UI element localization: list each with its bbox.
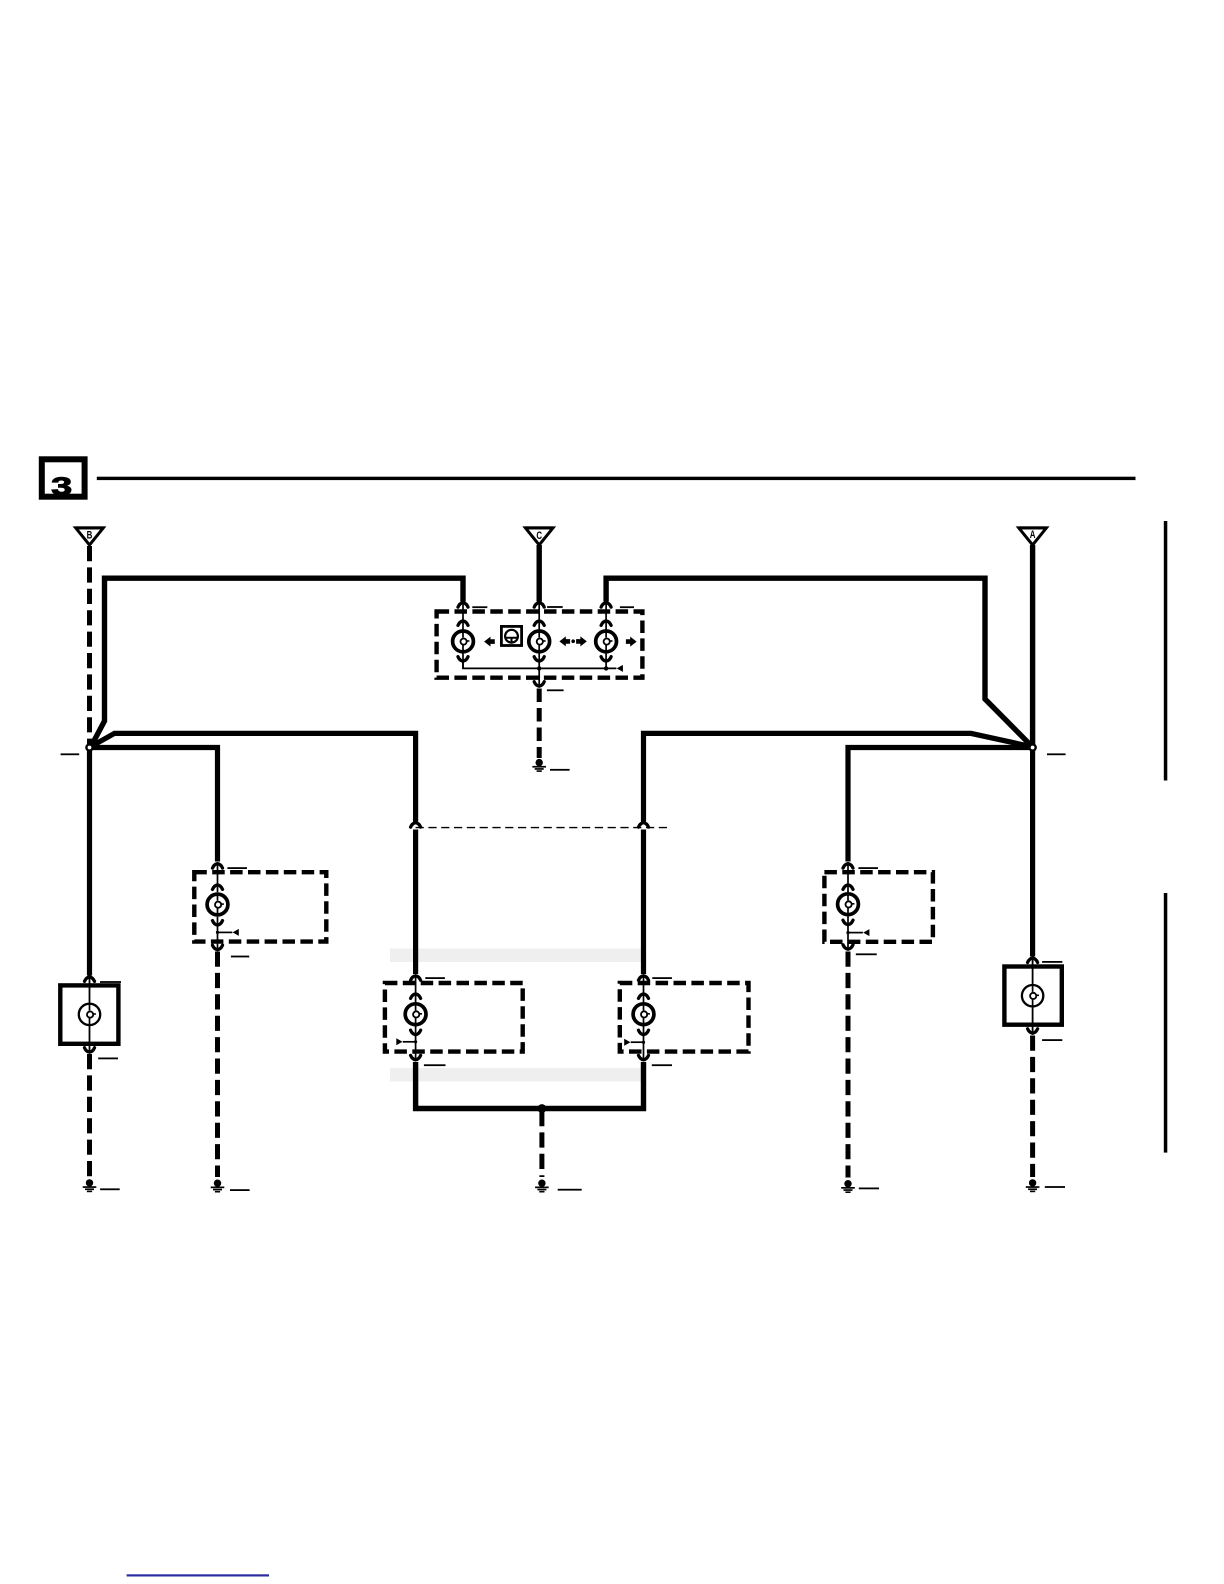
svg-text:C: C (536, 530, 542, 543)
column 2 ground (211, 1180, 225, 1193)
mid-right lamp entry chevron (639, 976, 649, 981)
upper bus left segment (91, 578, 463, 746)
column 2 bulb (207, 894, 228, 915)
cluster lamp 3 plug chevron (601, 621, 611, 626)
column 4 stub line (848, 932, 863, 934)
cluster lamp 1 lower chevron (458, 657, 468, 662)
mid-left lamp lower chevron (411, 1030, 421, 1035)
mid-right stub junction (642, 1041, 645, 1044)
bottom ground label dash (558, 1189, 582, 1191)
mid-right bulb (633, 1004, 654, 1025)
turn indicator bulb middle (529, 631, 550, 652)
svg-text:B: B (87, 529, 93, 542)
column 2 lamp plug chevron (213, 885, 223, 890)
collector junction right (604, 666, 608, 670)
cluster exit connector (534, 682, 544, 687)
mid-left stub line (403, 1041, 416, 1043)
column 4 lamp lead (847, 865, 849, 949)
cluster lamp 2 lower chevron (534, 657, 544, 662)
cluster ground wire dashed (537, 689, 542, 759)
right margin bar 2 (1164, 893, 1168, 1153)
cluster lamp 1 lead (462, 604, 464, 669)
column 1 exit chevron (85, 1048, 95, 1053)
node B label dash (61, 753, 80, 755)
column 4 stub triangle (863, 929, 869, 936)
branch wire node-B to column 2 (90, 748, 218, 862)
column 1 ground wire dashed (87, 1054, 92, 1177)
column 4 bulb (838, 894, 859, 915)
bottom bus junction (538, 1104, 547, 1113)
cluster lamp 3 lead (605, 604, 607, 669)
mid-left connector chevron (411, 823, 421, 828)
column 4 stub junction (846, 931, 849, 934)
bottom ground wire dashed (539, 1111, 544, 1177)
column 4 exit label dash (856, 953, 877, 955)
mid-left wire to lamp (413, 830, 418, 975)
svg-text:3: 3 (51, 472, 72, 500)
column 2 ground label dash (230, 1189, 250, 1191)
page number 3 (51, 472, 72, 500)
mid-right connector chevron (639, 823, 649, 828)
mid-left stub junction (414, 1040, 417, 1043)
cluster entry connector middle (534, 603, 544, 608)
column 2 entry label dash (227, 867, 247, 869)
bottom bus (416, 1062, 644, 1109)
column 4 entry chevron (843, 864, 853, 869)
mid-left stub triangle (396, 1038, 402, 1045)
highlight band 1 (390, 949, 642, 963)
column 1 ground (83, 1179, 97, 1192)
hazard dot (571, 639, 575, 643)
mid-right lamp plug chevron (639, 994, 649, 999)
connector triangle B (76, 526, 104, 545)
cluster entry connector left (458, 603, 468, 608)
cluster lamp 3 lower chevron (601, 657, 611, 662)
column 2 exit chevron (213, 945, 223, 950)
mid-right stub line (631, 1041, 644, 1043)
instrument cluster dashed box (437, 612, 643, 678)
column 5 exit chevron (1028, 1029, 1038, 1034)
collector junction middle (537, 666, 541, 670)
steering wheel icon (505, 630, 518, 643)
hazard right arrow (576, 636, 587, 646)
svg-text:A: A (1030, 529, 1036, 542)
column 4 lamp lower chevron (843, 920, 853, 925)
column 2 entry chevron (213, 864, 223, 869)
column 5 ground wire dashed (1030, 1036, 1035, 1178)
right margin bar 1 (1164, 521, 1168, 781)
cluster entry connector right (601, 603, 611, 608)
lower bus left segment (91, 733, 416, 821)
cluster entry label dash (620, 606, 634, 608)
wire B dashed vertical (87, 546, 92, 744)
mid-left bulb (405, 1004, 426, 1025)
column 1 entry chevron (85, 977, 95, 982)
mid-right exit label dash (652, 1064, 672, 1066)
column 5 ground label dash (1045, 1186, 1065, 1188)
mid-left exit label dash (424, 1064, 446, 1066)
column 2 stub line (218, 931, 233, 933)
thin dashed option line (416, 827, 668, 829)
cluster entry label dash (472, 606, 487, 608)
mid-right exit chevron (639, 1055, 649, 1060)
hazard left arrow (559, 636, 570, 646)
column 5 ground (1026, 1179, 1040, 1192)
lower bus right segment (644, 733, 1032, 821)
footer link rule (127, 1574, 269, 1576)
mid-right wire to lamp (641, 830, 646, 975)
column 1 lamp box (60, 985, 118, 1043)
cluster exit label dash (547, 689, 564, 691)
mid-left lamp lead (415, 977, 417, 1059)
node A label dash (1047, 753, 1066, 755)
page index box (42, 459, 85, 496)
cluster lamp 2 lead (538, 604, 540, 685)
column 4 ground (841, 1180, 855, 1193)
cluster ground label dash (550, 769, 570, 771)
column 2 stub triangle (233, 929, 239, 936)
bottom ground (535, 1180, 549, 1193)
mid-left lamp entry chevron (411, 976, 421, 981)
branch wire node-A to column 4 (848, 748, 1033, 862)
cluster lamp 1 plug chevron (458, 621, 468, 626)
column 5 exit label dash (1042, 1039, 1062, 1041)
turn indicator bulb left (453, 631, 474, 652)
column 4 lamp dashed box (824, 872, 933, 942)
mid-right lamp lower chevron (639, 1030, 649, 1035)
node A junction (1030, 744, 1036, 750)
header rule (97, 477, 1136, 480)
column 4 entry label dash (858, 867, 878, 869)
wire column 1 solid (87, 748, 92, 976)
column 2 lamp dashed box (194, 872, 326, 941)
column 5 lamp lead (1032, 959, 1034, 1032)
column 1 ground label dash (100, 1188, 120, 1190)
collector end triangle (617, 665, 623, 672)
turn indicator bulb right (596, 631, 617, 652)
column 2 lamp lead (217, 865, 219, 949)
left turn arrow (484, 637, 495, 647)
mid-left entry label dash (425, 977, 445, 979)
connector triangle A (1019, 526, 1047, 545)
wire A solid vertical (1030, 545, 1035, 745)
wire column 5 solid (1030, 748, 1035, 957)
steering wheel icon frame (501, 626, 521, 645)
mid-left lamp dashed box (385, 983, 523, 1052)
column 4 ground wire dashed (846, 952, 851, 1178)
cluster ground (532, 759, 546, 772)
column 2 stub junction (216, 931, 219, 934)
mid-left lamp plug chevron (411, 994, 421, 999)
column 4 ground label dash (859, 1188, 879, 1190)
column 1 lamp lead (89, 978, 91, 1051)
mid-right entry label dash (652, 977, 672, 979)
highlight band 2 (390, 1068, 642, 1082)
column 5 entry chevron (1028, 958, 1038, 963)
column 2 lamp lower chevron (213, 921, 223, 926)
cluster entry label dash (547, 606, 563, 608)
column 1 entry label dash (100, 981, 121, 983)
upper bus right segment (606, 578, 1031, 746)
column 4 exit chevron (843, 945, 853, 950)
mid-right lamp dashed box (620, 983, 749, 1052)
right turn arrow (626, 637, 637, 647)
column 1 exit label dash (98, 1058, 118, 1060)
column 2 exit label dash (231, 956, 249, 958)
column 5 bulb (1022, 985, 1043, 1006)
mid-left exit chevron (411, 1055, 421, 1060)
column 1 bulb (79, 1004, 100, 1025)
connector triangle C (525, 526, 553, 545)
wire C solid vertical (537, 545, 542, 602)
column 2 ground wire dashed (215, 952, 220, 1178)
cluster collector line (463, 662, 616, 668)
mid-right lamp lead (643, 977, 645, 1059)
mid-right stub triangle (624, 1039, 630, 1046)
column 5 lamp box (1004, 967, 1061, 1025)
cluster lamp 2 plug chevron (534, 621, 544, 626)
node B junction (86, 744, 92, 750)
column 5 entry label dash (1042, 961, 1062, 963)
column 4 lamp plug chevron (843, 885, 853, 890)
